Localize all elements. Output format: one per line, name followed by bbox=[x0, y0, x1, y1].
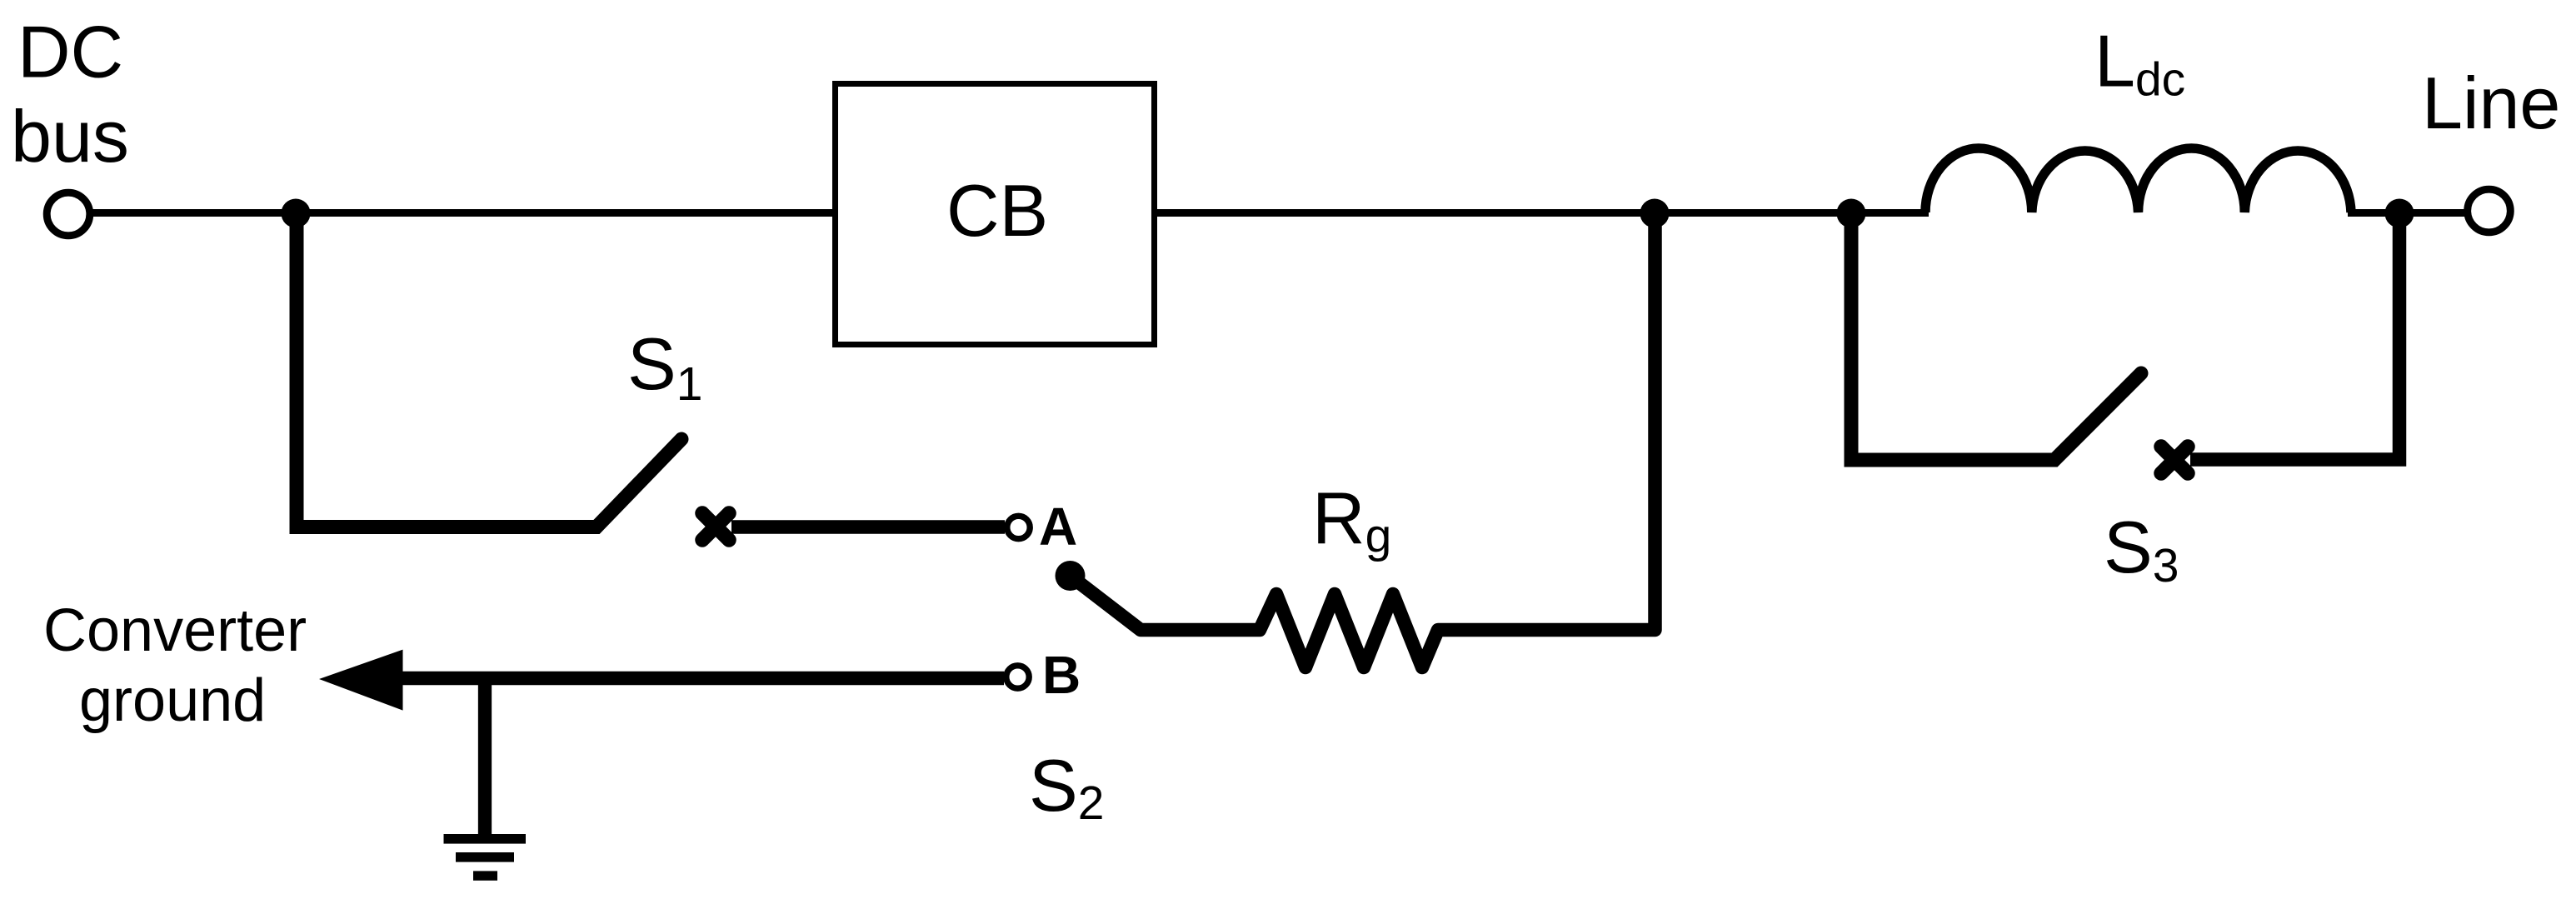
wire: converter ground run to node B bbox=[383, 672, 1004, 686]
ground symbol bar 1 bbox=[444, 834, 527, 844]
Line terminal circle bbox=[2468, 189, 2511, 232]
switch S2 pole dot bbox=[1056, 561, 1086, 591]
wire: S3 cross to right vertical up to junction J4 bbox=[2190, 217, 2399, 460]
arrowhead to converter ground bbox=[319, 650, 403, 711]
node A terminal circle bbox=[1007, 516, 1030, 538]
circuit breaker CB box bbox=[836, 84, 1155, 345]
junction node dot J4 (inductor right tap) bbox=[2385, 199, 2414, 228]
DC bus terminal circle bbox=[47, 192, 90, 236]
ground symbol bar 2 bbox=[456, 852, 514, 862]
svg-text:bus: bus bbox=[11, 95, 129, 177]
junction node dot J1 (DC bus tap) bbox=[282, 199, 311, 228]
svg-text:A: A bbox=[1039, 497, 1077, 557]
svg-text:CB: CB bbox=[946, 169, 1048, 252]
node B terminal circle bbox=[1006, 666, 1029, 688]
wire: S1 cross to node A bbox=[731, 520, 1005, 534]
ground symbol bar 3 bbox=[473, 871, 497, 880]
junction node dot J2 (Rg branch tap) bbox=[1640, 199, 1670, 228]
wire: inductor to Line terminal bbox=[2348, 209, 2468, 217]
inductor Ldc bbox=[1925, 148, 2351, 212]
switch S3 contact cross bbox=[2161, 447, 2188, 473]
switch S2 blade, resistor Rg zigzag, wire up to junction J2 bbox=[1071, 217, 1655, 667]
svg-text:Converter: Converter bbox=[43, 597, 307, 664]
wire: S3 branch (left vertical, bottom run, switch S3 blade) bbox=[1851, 212, 2141, 460]
svg-text:DC: DC bbox=[17, 11, 123, 93]
svg-text:B: B bbox=[1042, 645, 1081, 705]
wire: S1 branch (vertical drop, bottom run, switch S1 blade) bbox=[297, 212, 681, 527]
wire: CB box to inductor bbox=[1151, 209, 1929, 217]
svg-text:ground: ground bbox=[79, 667, 266, 734]
switch S1 contact cross bbox=[702, 513, 729, 540]
svg-text:Line: Line bbox=[2422, 62, 2560, 144]
wire: ground dropper bbox=[478, 678, 492, 835]
junction node dot J3 (S3 branch left tap) bbox=[1837, 199, 1866, 228]
wire: DC bus terminal to CB box bbox=[88, 209, 838, 217]
